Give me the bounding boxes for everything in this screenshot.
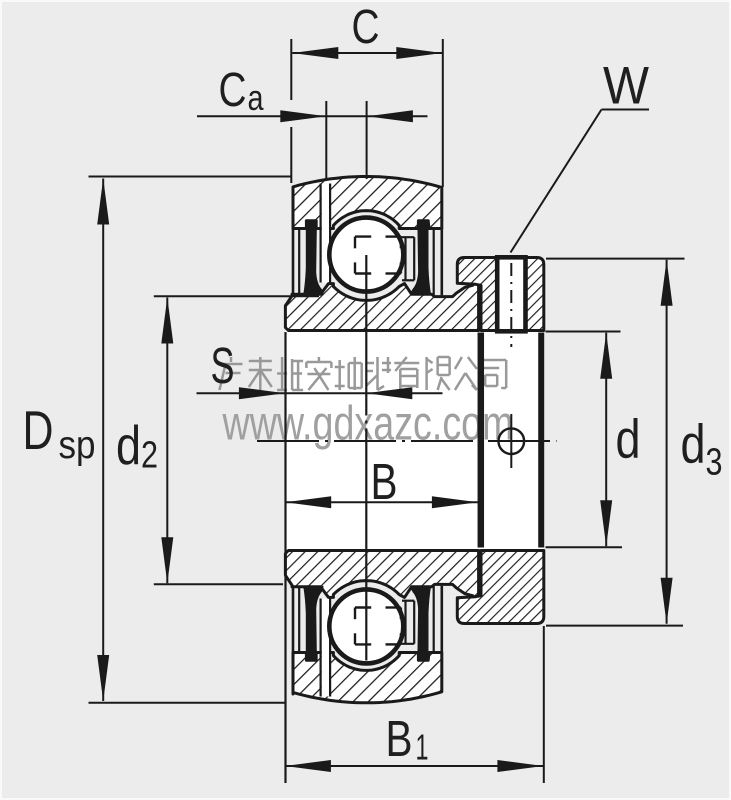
balls (rolling elements): [329, 218, 403, 292]
seal, top left (black): [304, 221, 323, 295]
dimension d (bore diameter): line, arrows, extension lines, label: [605, 333, 607, 547]
B1 right extension line: [543, 626, 545, 783]
dimension C (outer ring width): line, arrows, extension lines, label: [292, 52, 442, 54]
svg-text:2: 2: [141, 435, 158, 477]
seal, bottom left (black): [304, 586, 323, 660]
inner ring left face edge through bore / B1 extension line: [284, 332, 286, 783]
seal, top right (black): [411, 221, 430, 295]
svg-text:D: D: [23, 399, 54, 461]
set screw hole circle on centre line: [499, 428, 525, 454]
set screw W in collar (white slot with thick border): [497, 257, 525, 331]
svg-text:C: C: [219, 64, 247, 117]
main horizontal centre line (chain line): [257, 440, 557, 442]
centre mark square, bottom ball: [355, 606, 371, 608]
dimension B1 (total width): line, arrows, label: [285, 765, 544, 767]
bore interior (white): [285, 331, 543, 551]
inner ring, bottom section (hatched): [285, 551, 478, 602]
svg-text:a: a: [248, 77, 265, 118]
centre mark square, top ball: [355, 235, 371, 237]
dimension S (face to centre): line, arrows, label: [197, 392, 443, 394]
eccentric locking collar, bottom section (hatched): [457, 551, 544, 624]
dimension Dsp (sphere diameter): line, arrows, extension lines, label: [102, 179, 104, 702]
svg-text:3: 3: [706, 442, 723, 484]
watermark: Chinese company name (gray): [220, 357, 507, 390]
dimension B (inner ring width): line, arrows, label: [285, 501, 478, 503]
svg-text:B: B: [371, 453, 398, 510]
svg-text:d: d: [681, 413, 706, 475]
eccentric locking collar, top section (hatched): [457, 258, 544, 331]
set screw axis chain line: [510, 263, 512, 347]
collar bore far edge through bore (thick): [538, 333, 544, 548]
svg-text:www.gdxazc.com: www.gdxazc.com: [222, 398, 514, 451]
svg-text:S: S: [211, 337, 235, 394]
inner ring, top section (hatched, raceway + eccentric cam end): [285, 279, 478, 330]
outer ring land edges beside balls: [404, 237, 406, 280]
dimension Ca: line, arrows, extension lines, label: [197, 115, 428, 117]
svg-text:W: W: [603, 57, 649, 116]
svg-text:d: d: [116, 414, 141, 476]
svg-text:1: 1: [416, 727, 429, 768]
seal, bottom right (black): [411, 586, 430, 660]
label W with leader line to set screw: [602, 109, 650, 111]
outer ring, bottom section (hatched): [293, 653, 442, 703]
vertical ball centre plane chain line: [365, 255, 367, 416]
svg-text:sp: sp: [59, 424, 96, 467]
outer ring, top section (hatched, spherical OD, lube slot): [293, 177, 442, 229]
inner ring right face / collar recess edge through bore (thick): [478, 333, 485, 548]
dimension d2 (shoulder diameter): line, arrows, extension lines, label: [166, 298, 168, 584]
svg-text:d: d: [616, 408, 641, 470]
svg-text:B: B: [386, 710, 413, 767]
svg-text:C: C: [352, 1, 380, 54]
dimension d3 (collar diameter): line, arrows, extension lines, label: [666, 260, 668, 624]
outer ring OD edges and seal-groove lip lines: [292, 229, 295, 294]
